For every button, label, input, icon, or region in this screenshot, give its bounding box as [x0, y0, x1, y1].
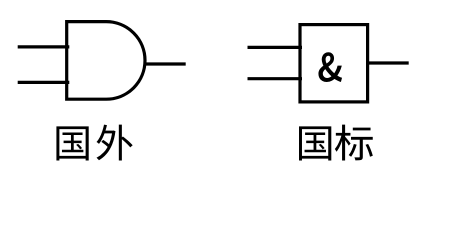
wire: right gate input 2 [248, 77, 303, 80]
AND gate U2 (IEC rectangular body) [300, 25, 368, 102]
& qualifier symbol inside IEC gate [318, 52, 342, 82]
wire: left gate output [145, 62, 186, 65]
wire: left gate input 2 [18, 81, 70, 84]
AND gate U1 (ANSI distinctive-shape body) [67, 22, 145, 100]
wire: right gate output [368, 61, 409, 64]
label 国外 : char 国 [56, 126, 88, 160]
wire: left gate input 1 [18, 45, 70, 48]
label 国标 : char 国 [299, 126, 331, 160]
label 国外 : char 外 [96, 125, 132, 161]
wire: right gate input 1 [248, 46, 303, 49]
label 国标 : char 标 [335, 125, 373, 161]
